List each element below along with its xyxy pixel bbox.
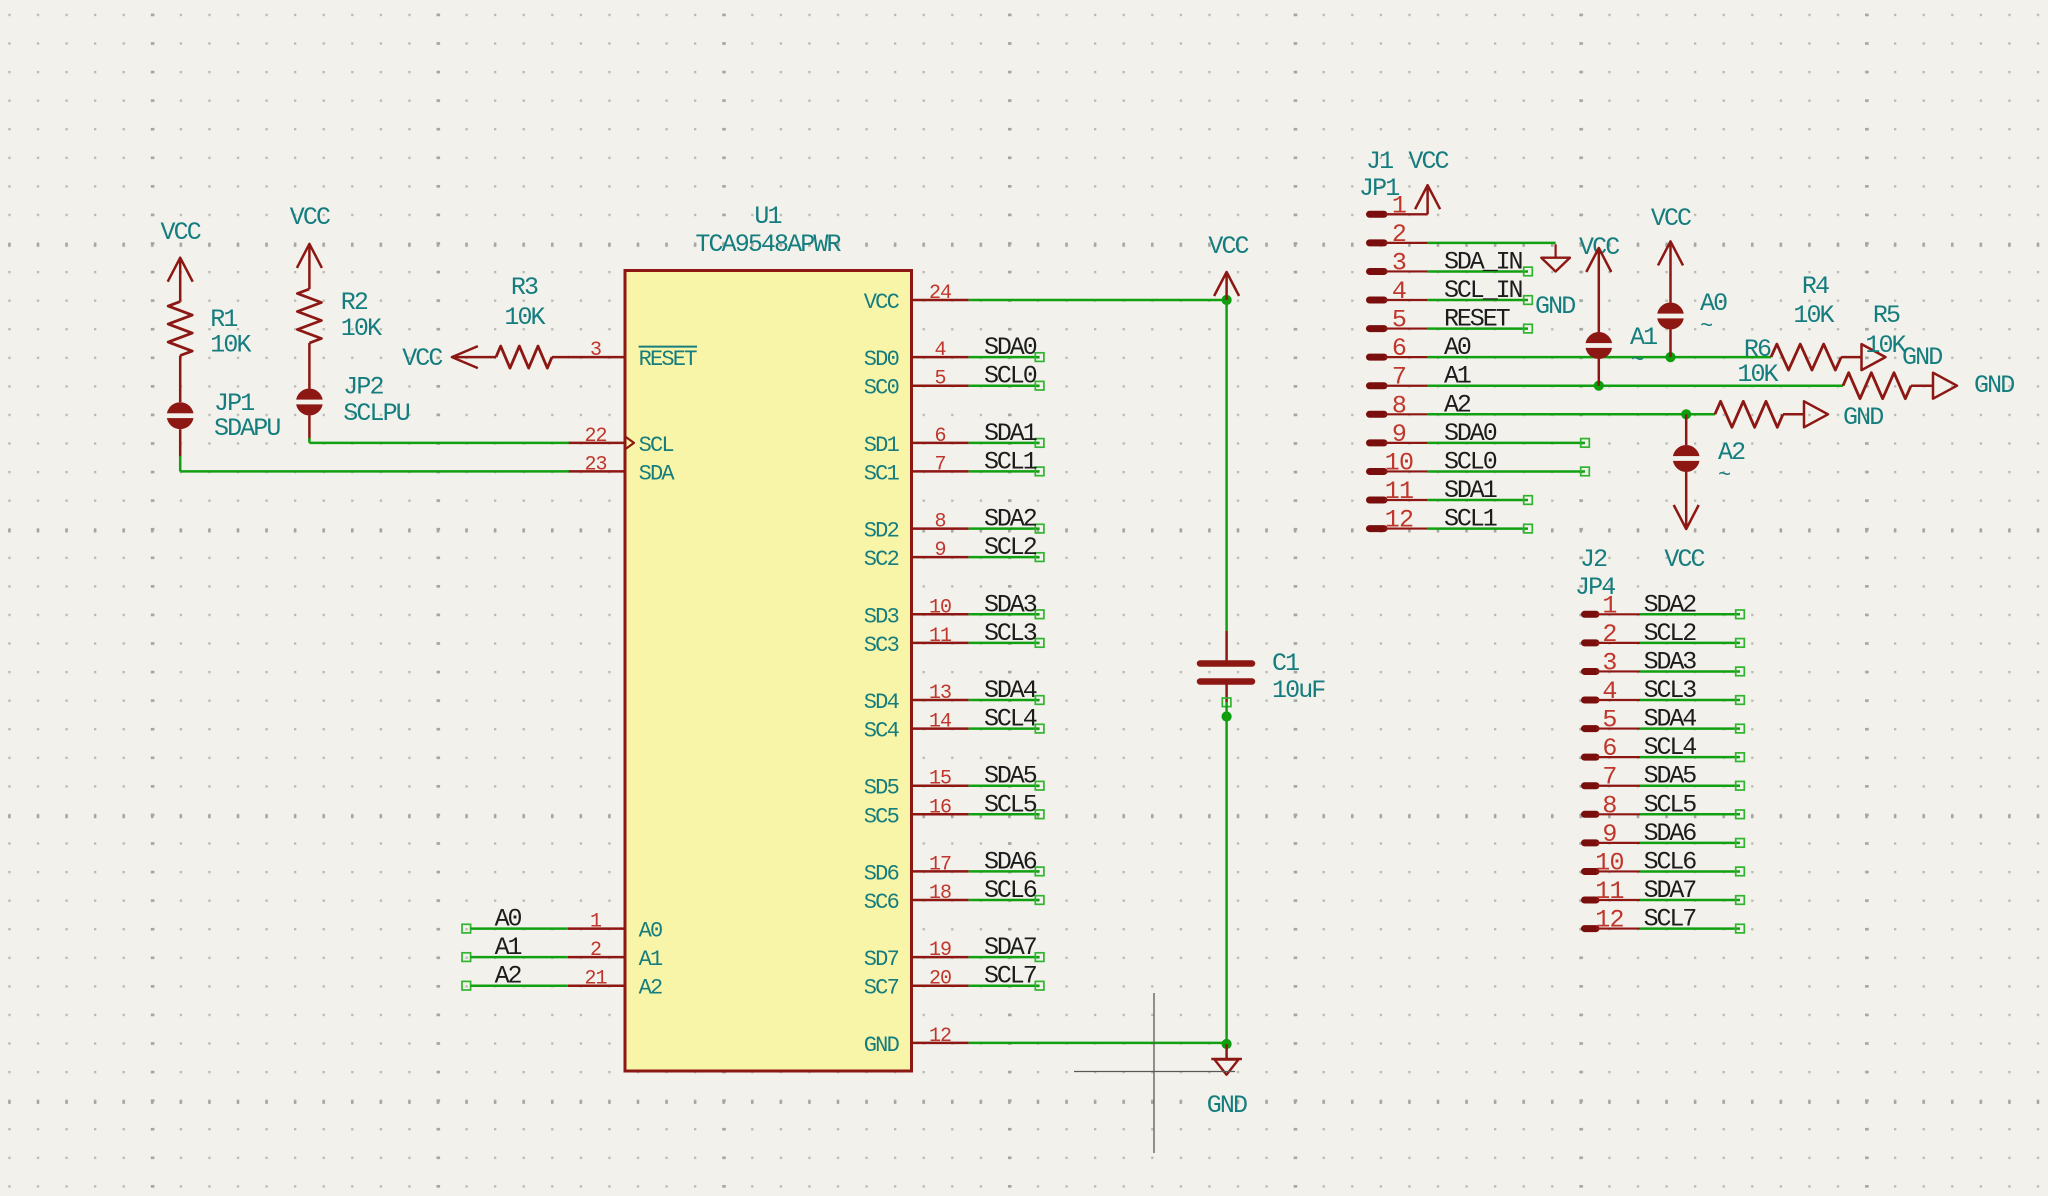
- wire SCL1 from U1 with label: [969, 447, 1044, 476]
- solder jumper A0 with VCC arrow: [1651, 204, 1727, 357]
- svg-text:19: 19: [929, 939, 951, 962]
- J2 pin 7: [1585, 763, 1641, 792]
- svg-text:J1: J1: [1366, 147, 1393, 176]
- wire R4 to GND arrow: [1841, 356, 1861, 359]
- svg-text:SCL5: SCL5: [1644, 790, 1697, 819]
- wire J1 pin 10 SCL0: [1428, 447, 1590, 476]
- wire SDA2 from U1 with label: [969, 505, 1044, 534]
- svg-text:15: 15: [929, 768, 951, 791]
- IC U1 TCA9548APWR body: [625, 271, 912, 1072]
- svg-text:3: 3: [590, 339, 601, 362]
- wire U1 pin 24 to VCC node: [969, 299, 1227, 302]
- J2 pin 4: [1585, 677, 1641, 706]
- wire SDA7 from U1 with label: [969, 933, 1044, 962]
- solder jumper JP1 SDAPU: [165, 389, 280, 443]
- resistor R2: [297, 288, 382, 343]
- svg-text:6: 6: [934, 425, 945, 448]
- svg-text:SDA7: SDA7: [1644, 876, 1697, 905]
- wire J2 pin 11 SDA7: [1640, 876, 1744, 905]
- wire SDA4 from U1 with label: [969, 676, 1044, 705]
- cursor crosshair: [1074, 993, 1235, 1153]
- wire R1 to JP1: [179, 356, 182, 403]
- svg-text:SCL3: SCL3: [1644, 676, 1697, 705]
- power GND right of R4: [1862, 343, 1943, 372]
- svg-text:A2: A2: [1444, 390, 1471, 419]
- svg-text:SD6: SD6: [864, 861, 899, 886]
- U1 pin 7 SC1: [864, 453, 969, 486]
- wire R2 to JP2: [308, 343, 311, 389]
- J1 pin 11: [1370, 477, 1428, 506]
- svg-text:10K: 10K: [210, 331, 251, 360]
- svg-text:SC5: SC5: [864, 804, 899, 829]
- wire J2 pin 6 SCL4: [1640, 733, 1744, 762]
- wire J1 pin 4 SCL_IN: [1428, 276, 1533, 305]
- svg-text:8: 8: [1392, 391, 1406, 420]
- svg-text:SDA4: SDA4: [1644, 705, 1697, 734]
- J1 pin 9: [1370, 420, 1428, 449]
- wire C1 to GND rail: [1225, 702, 1228, 1046]
- svg-text:2: 2: [1602, 620, 1616, 649]
- svg-text:SCL1: SCL1: [1444, 505, 1497, 534]
- wire SCL0 from U1 with label: [969, 362, 1044, 391]
- svg-text:8: 8: [934, 511, 945, 534]
- wire SDA6 from U1 with label: [969, 847, 1044, 876]
- U1 pin 2 A1: [568, 939, 663, 972]
- svg-text:10uF: 10uF: [1272, 676, 1325, 705]
- svg-text:SDA0: SDA0: [984, 333, 1037, 362]
- svg-text:5: 5: [1392, 306, 1406, 335]
- J2 pin 3: [1585, 648, 1641, 677]
- svg-text:9: 9: [1602, 820, 1616, 849]
- power GND right of R6: [1804, 401, 1883, 432]
- resistor R6 on A2 net: [1715, 335, 1783, 427]
- svg-text:R3: R3: [511, 273, 538, 302]
- wire J2 pin 2 SCL2: [1640, 619, 1744, 648]
- junction A1 net: [1594, 381, 1604, 391]
- svg-text:SC7: SC7: [864, 976, 899, 1001]
- svg-text:SCL2: SCL2: [1644, 619, 1697, 648]
- J1 pin 5: [1370, 306, 1428, 335]
- svg-text:SDA3: SDA3: [1644, 647, 1697, 676]
- svg-text:11: 11: [1595, 877, 1623, 906]
- svg-text:GND: GND: [864, 1033, 900, 1058]
- svg-text:SCLPU: SCLPU: [343, 399, 409, 428]
- capacitor C1 10uF: [1200, 631, 1325, 705]
- wire SCL6 from U1 with label: [969, 876, 1044, 905]
- power symbol at J1 pin 2 (open triangle) with VCC text: [1541, 233, 1619, 272]
- svg-text:TCA9548APWR: TCA9548APWR: [695, 230, 841, 259]
- svg-text:SCL6: SCL6: [1644, 847, 1697, 876]
- svg-text:SC3: SC3: [864, 633, 899, 658]
- U1 pin 3 RESET: [568, 339, 697, 372]
- J1 pin 2: [1370, 220, 1428, 249]
- svg-text:SDA: SDA: [639, 461, 676, 486]
- power VCC above R2: [290, 203, 330, 289]
- wire SCL net to U1 pin 22: [309, 438, 569, 443]
- svg-text:GND: GND: [1902, 343, 1942, 372]
- svg-text:1: 1: [590, 911, 602, 934]
- svg-text:SCL5: SCL5: [984, 790, 1037, 819]
- J2 pin 6: [1585, 734, 1641, 763]
- wire SCL4 from U1 with label: [969, 705, 1044, 734]
- J1 pin 7: [1370, 363, 1428, 392]
- svg-text:SCL: SCL: [639, 433, 674, 458]
- svg-text:SCL_IN: SCL_IN: [1444, 276, 1523, 305]
- wire SCL2 from U1 with label: [969, 533, 1044, 562]
- svg-text:SDA_IN: SDA_IN: [1444, 247, 1523, 276]
- svg-text:2: 2: [590, 939, 601, 962]
- U1 pin 13 SD4: [864, 682, 969, 715]
- svg-text:SCL1: SCL1: [984, 447, 1037, 476]
- svg-text:10K: 10K: [1865, 331, 1906, 360]
- resistor R5 on A1 net: [1843, 301, 1911, 399]
- svg-text:SDA3: SDA3: [984, 590, 1037, 619]
- svg-text:7: 7: [1602, 763, 1616, 792]
- wire SCL5 from U1 with label: [969, 790, 1044, 819]
- svg-text:9: 9: [1392, 420, 1406, 449]
- svg-text:SD2: SD2: [864, 519, 899, 544]
- svg-text:R4: R4: [1802, 272, 1829, 301]
- svg-text:SD0: SD0: [864, 347, 899, 372]
- resistor R4 on A0 net: [1771, 272, 1841, 370]
- wire R6 to GND arrow: [1783, 413, 1805, 416]
- power VCC above R1: [161, 218, 201, 302]
- junction GND node: [1222, 1039, 1232, 1049]
- wire J1 pin 9 SDA0: [1428, 419, 1590, 448]
- J2 pin 11: [1585, 877, 1641, 906]
- svg-text:SDA1: SDA1: [984, 419, 1037, 448]
- U1 pin 4 SD0: [864, 339, 969, 372]
- svg-text:GND: GND: [1535, 292, 1575, 321]
- wire J1 pin 2: [1428, 242, 1556, 245]
- svg-text:~: ~: [1631, 348, 1644, 373]
- svg-text:SD5: SD5: [864, 776, 899, 801]
- wire J1 pin 5 RESET: [1428, 305, 1533, 334]
- svg-text:SC6: SC6: [864, 890, 899, 915]
- svg-text:3: 3: [1602, 648, 1616, 677]
- svg-text:16: 16: [929, 796, 951, 819]
- svg-text:VCC: VCC: [1664, 545, 1704, 574]
- connector J1 JP1 title labels: [1359, 147, 1399, 203]
- wire SDA3 from U1 with label: [969, 590, 1044, 619]
- solder jumper A2 with VCC arrow down: [1664, 414, 1745, 574]
- J2 pin 2: [1585, 620, 1641, 649]
- svg-text:SC0: SC0: [864, 376, 899, 401]
- U1 pin 18 SC6: [864, 882, 969, 915]
- svg-text:22: 22: [584, 425, 606, 448]
- wire SDA1 from U1 with label: [969, 419, 1044, 448]
- U1 pin 22 SCL: [568, 425, 674, 458]
- wire J1 pin 3 SDA_IN: [1428, 247, 1533, 276]
- svg-text:10K: 10K: [1737, 360, 1778, 389]
- svg-text:VCC: VCC: [1651, 204, 1691, 233]
- svg-text:SCL0: SCL0: [984, 362, 1037, 391]
- svg-text:10: 10: [1595, 848, 1623, 877]
- svg-text:A2: A2: [495, 962, 522, 991]
- J2 pin 12: [1585, 906, 1641, 935]
- U1 pin 16 SC5: [864, 796, 969, 829]
- svg-text:1: 1: [1392, 191, 1406, 220]
- svg-text:SDA2: SDA2: [984, 505, 1037, 534]
- wire J1 pin 8 A2: [1428, 390, 1715, 419]
- wire J2 pin 9 SDA6: [1640, 819, 1744, 848]
- svg-text:C1: C1: [1272, 649, 1299, 678]
- svg-text:SDA5: SDA5: [1644, 762, 1697, 791]
- junction A2 net: [1681, 409, 1691, 419]
- wire J1 pin 7 A1: [1428, 362, 1843, 391]
- svg-text:SCL7: SCL7: [984, 962, 1037, 991]
- U1 pin 8 SD2: [864, 511, 969, 544]
- U1 pin 20 SC7: [864, 968, 969, 1001]
- solder jumper A1 with VCC arrow: [1584, 248, 1657, 386]
- wire A2 into U1 with label: [462, 962, 568, 991]
- svg-text:11: 11: [929, 625, 952, 648]
- svg-text:SDA0: SDA0: [1444, 419, 1497, 448]
- J1 pin 1: [1370, 191, 1428, 220]
- svg-text:24: 24: [929, 282, 951, 305]
- svg-text:SDA1: SDA1: [1444, 476, 1497, 505]
- svg-text:3: 3: [1392, 248, 1406, 277]
- svg-text:SCL6: SCL6: [984, 876, 1037, 905]
- svg-text:18: 18: [929, 882, 951, 905]
- U1 pin 15 SD5: [864, 768, 969, 801]
- wire J1 pin 6 A0: [1428, 333, 1771, 362]
- wire R5 to GND arrow: [1911, 384, 1934, 387]
- svg-text:SCL3: SCL3: [984, 619, 1037, 648]
- svg-text:RESET: RESET: [1444, 305, 1511, 334]
- svg-text:SC2: SC2: [864, 547, 899, 572]
- svg-text:11: 11: [1385, 477, 1413, 506]
- wire SCL7 from U1 with label: [969, 962, 1044, 991]
- svg-text:A0: A0: [639, 919, 662, 944]
- svg-text:VCC: VCC: [1208, 232, 1248, 261]
- U1 pin 12 GND: [864, 1025, 969, 1058]
- U1 pin 11 SC3: [864, 625, 969, 658]
- svg-text:SCL4: SCL4: [1644, 733, 1697, 762]
- svg-text:17: 17: [929, 853, 951, 876]
- U1 pin 1 A0: [568, 911, 662, 944]
- svg-text:13: 13: [929, 682, 951, 705]
- J1 pin 6: [1370, 334, 1428, 363]
- resistor R1: [168, 302, 251, 360]
- svg-text:VCC: VCC: [1408, 147, 1448, 176]
- svg-text:SD1: SD1: [864, 433, 900, 458]
- svg-text:SCL0: SCL0: [1444, 447, 1497, 476]
- svg-text:GND: GND: [1974, 371, 2014, 400]
- J1 pin 4: [1370, 277, 1428, 306]
- J1 pin 8: [1370, 391, 1428, 420]
- wire SDA5 from U1 with label: [969, 762, 1044, 791]
- svg-text:10: 10: [929, 596, 951, 619]
- svg-text:~: ~: [1700, 314, 1713, 339]
- wire SDA net to U1 pin 23: [180, 456, 569, 471]
- J1 pin 12: [1370, 506, 1428, 535]
- svg-text:12: 12: [1595, 906, 1623, 935]
- J2 pin 9: [1585, 820, 1641, 849]
- svg-text:A1: A1: [1444, 362, 1471, 391]
- svg-text:4: 4: [1602, 677, 1616, 706]
- wire JP2 down: [308, 416, 311, 441]
- svg-text:8: 8: [1602, 791, 1616, 820]
- svg-text:7: 7: [934, 453, 945, 476]
- svg-text:23: 23: [584, 453, 606, 476]
- svg-text:JP2: JP2: [343, 373, 383, 402]
- junction VCC node: [1222, 295, 1232, 305]
- U1 pin 14 SC4: [864, 711, 969, 744]
- U1 pin 21 A2: [568, 968, 662, 1001]
- svg-text:SC4: SC4: [864, 719, 900, 744]
- svg-text:SDA6: SDA6: [1644, 819, 1697, 848]
- wire A0 into U1 with label: [462, 905, 568, 934]
- svg-text:10K: 10K: [504, 303, 545, 332]
- svg-text:SDA6: SDA6: [984, 847, 1037, 876]
- svg-text:VCC: VCC: [161, 218, 201, 247]
- J1 pin 10: [1370, 448, 1428, 477]
- svg-text:A1: A1: [495, 933, 522, 962]
- wire J1 pin 12 SCL1: [1428, 505, 1533, 534]
- svg-text:SCL2: SCL2: [984, 533, 1037, 562]
- svg-text:SCL4: SCL4: [984, 705, 1037, 734]
- svg-text:10: 10: [1385, 448, 1413, 477]
- svg-text:21: 21: [584, 968, 607, 991]
- J2 pin 5: [1585, 706, 1641, 735]
- J2 pin 1: [1585, 591, 1641, 620]
- U1 pin 6 SD1: [864, 425, 969, 458]
- wire A1 into U1 with label: [462, 933, 568, 962]
- power VCC at pin 24 node: [1208, 232, 1248, 300]
- U1 pin 10 SD3: [864, 596, 969, 629]
- J2 pin 8: [1585, 791, 1641, 820]
- svg-text:12: 12: [929, 1025, 951, 1048]
- wire JP1 down: [179, 429, 182, 458]
- U1 pin 24 VCC: [864, 282, 969, 315]
- wire SCL3 from U1 with label: [969, 619, 1044, 648]
- svg-text:VCC: VCC: [864, 290, 900, 315]
- C1 bottom pin end square: [1222, 698, 1231, 707]
- svg-text:A0: A0: [1444, 333, 1471, 362]
- wire J1 pin 11 SDA1: [1428, 476, 1533, 505]
- U1 pin 5 SC0: [864, 368, 969, 401]
- svg-text:20: 20: [929, 968, 951, 991]
- svg-text:9: 9: [934, 539, 945, 562]
- power GND symbol bottom: [1207, 1044, 1247, 1120]
- junction A0 net: [1665, 352, 1675, 362]
- resistor R3: [496, 273, 552, 368]
- svg-text:J2: J2: [1580, 545, 1607, 574]
- svg-text:SDA4: SDA4: [984, 676, 1037, 705]
- U1 pin 23 SDA: [568, 453, 676, 486]
- svg-text:R2: R2: [341, 288, 368, 317]
- svg-text:A0: A0: [495, 905, 522, 934]
- svg-text:SDA2: SDA2: [1644, 590, 1697, 619]
- svg-text:RESET: RESET: [639, 347, 698, 372]
- svg-text:SD4: SD4: [864, 690, 900, 715]
- svg-text:VCC: VCC: [290, 203, 330, 232]
- U1 pin 17 SD6: [864, 853, 969, 886]
- wire J2 pin 7 SDA5: [1640, 762, 1744, 791]
- svg-text:U1: U1: [754, 202, 781, 231]
- svg-text:SDAPU: SDAPU: [214, 414, 280, 443]
- svg-text:SCL7: SCL7: [1644, 905, 1697, 934]
- svg-text:10K: 10K: [1793, 301, 1834, 330]
- svg-text:12: 12: [1385, 506, 1413, 535]
- svg-text:4: 4: [1392, 277, 1406, 306]
- svg-text:10K: 10K: [341, 314, 382, 343]
- svg-text:SD3: SD3: [864, 604, 899, 629]
- svg-text:4: 4: [934, 339, 945, 362]
- wire J2 pin 3 SDA3: [1640, 647, 1744, 676]
- J2 pin 10: [1585, 848, 1641, 877]
- wire J2 pin 8 SCL5: [1640, 790, 1744, 819]
- wire U1 pin 12 GND to GND symbol: [969, 1042, 1227, 1045]
- wire J2 pin 5 SDA4: [1640, 705, 1744, 734]
- svg-text:GND: GND: [1207, 1091, 1247, 1120]
- wire J2 pin 1 SDA2: [1640, 590, 1744, 619]
- wire J2 pin 10 SCL6: [1640, 847, 1744, 876]
- svg-text:1: 1: [1602, 591, 1616, 620]
- U1 pin 19 SD7: [864, 939, 969, 972]
- connector J2 JP4 title labels: [1575, 545, 1615, 602]
- svg-text:~: ~: [1718, 463, 1731, 488]
- svg-text:6: 6: [1602, 734, 1616, 763]
- U1 pin 9 SC2: [864, 539, 969, 572]
- svg-text:5: 5: [934, 368, 945, 391]
- power GND right of R5: [1933, 371, 2014, 400]
- solder jumper JP2 SCLPU: [294, 373, 409, 429]
- power VCC at J1 pin 1: [1385, 147, 1449, 214]
- wire J2 pin 4 SCL3: [1640, 676, 1744, 705]
- junction below C1: [1222, 711, 1232, 721]
- svg-text:SDA5: SDA5: [984, 762, 1037, 791]
- svg-text:SD7: SD7: [864, 947, 899, 972]
- svg-text:6: 6: [1392, 334, 1406, 363]
- wire VCC node down to C1: [1225, 300, 1228, 631]
- svg-text:2: 2: [1392, 220, 1406, 249]
- svg-text:7: 7: [1392, 363, 1406, 392]
- svg-text:A1: A1: [639, 947, 663, 972]
- svg-text:A2: A2: [639, 976, 662, 1001]
- svg-text:SC1: SC1: [864, 461, 900, 486]
- power VCC left of R3: [402, 344, 478, 373]
- wire VCC arrow to R3: [452, 356, 496, 359]
- wire J2 pin 12 SCL7: [1640, 905, 1744, 934]
- svg-text:SDA7: SDA7: [984, 933, 1037, 962]
- svg-text:GND: GND: [1843, 403, 1883, 432]
- wire R3 to U1 pin 3: [552, 356, 569, 359]
- svg-text:14: 14: [929, 711, 951, 734]
- svg-text:5: 5: [1602, 706, 1616, 735]
- J1 pin 3: [1370, 248, 1428, 277]
- wire SDA0 from U1 with label: [969, 333, 1044, 362]
- svg-text:VCC: VCC: [402, 344, 442, 373]
- svg-text:R5: R5: [1873, 301, 1900, 330]
